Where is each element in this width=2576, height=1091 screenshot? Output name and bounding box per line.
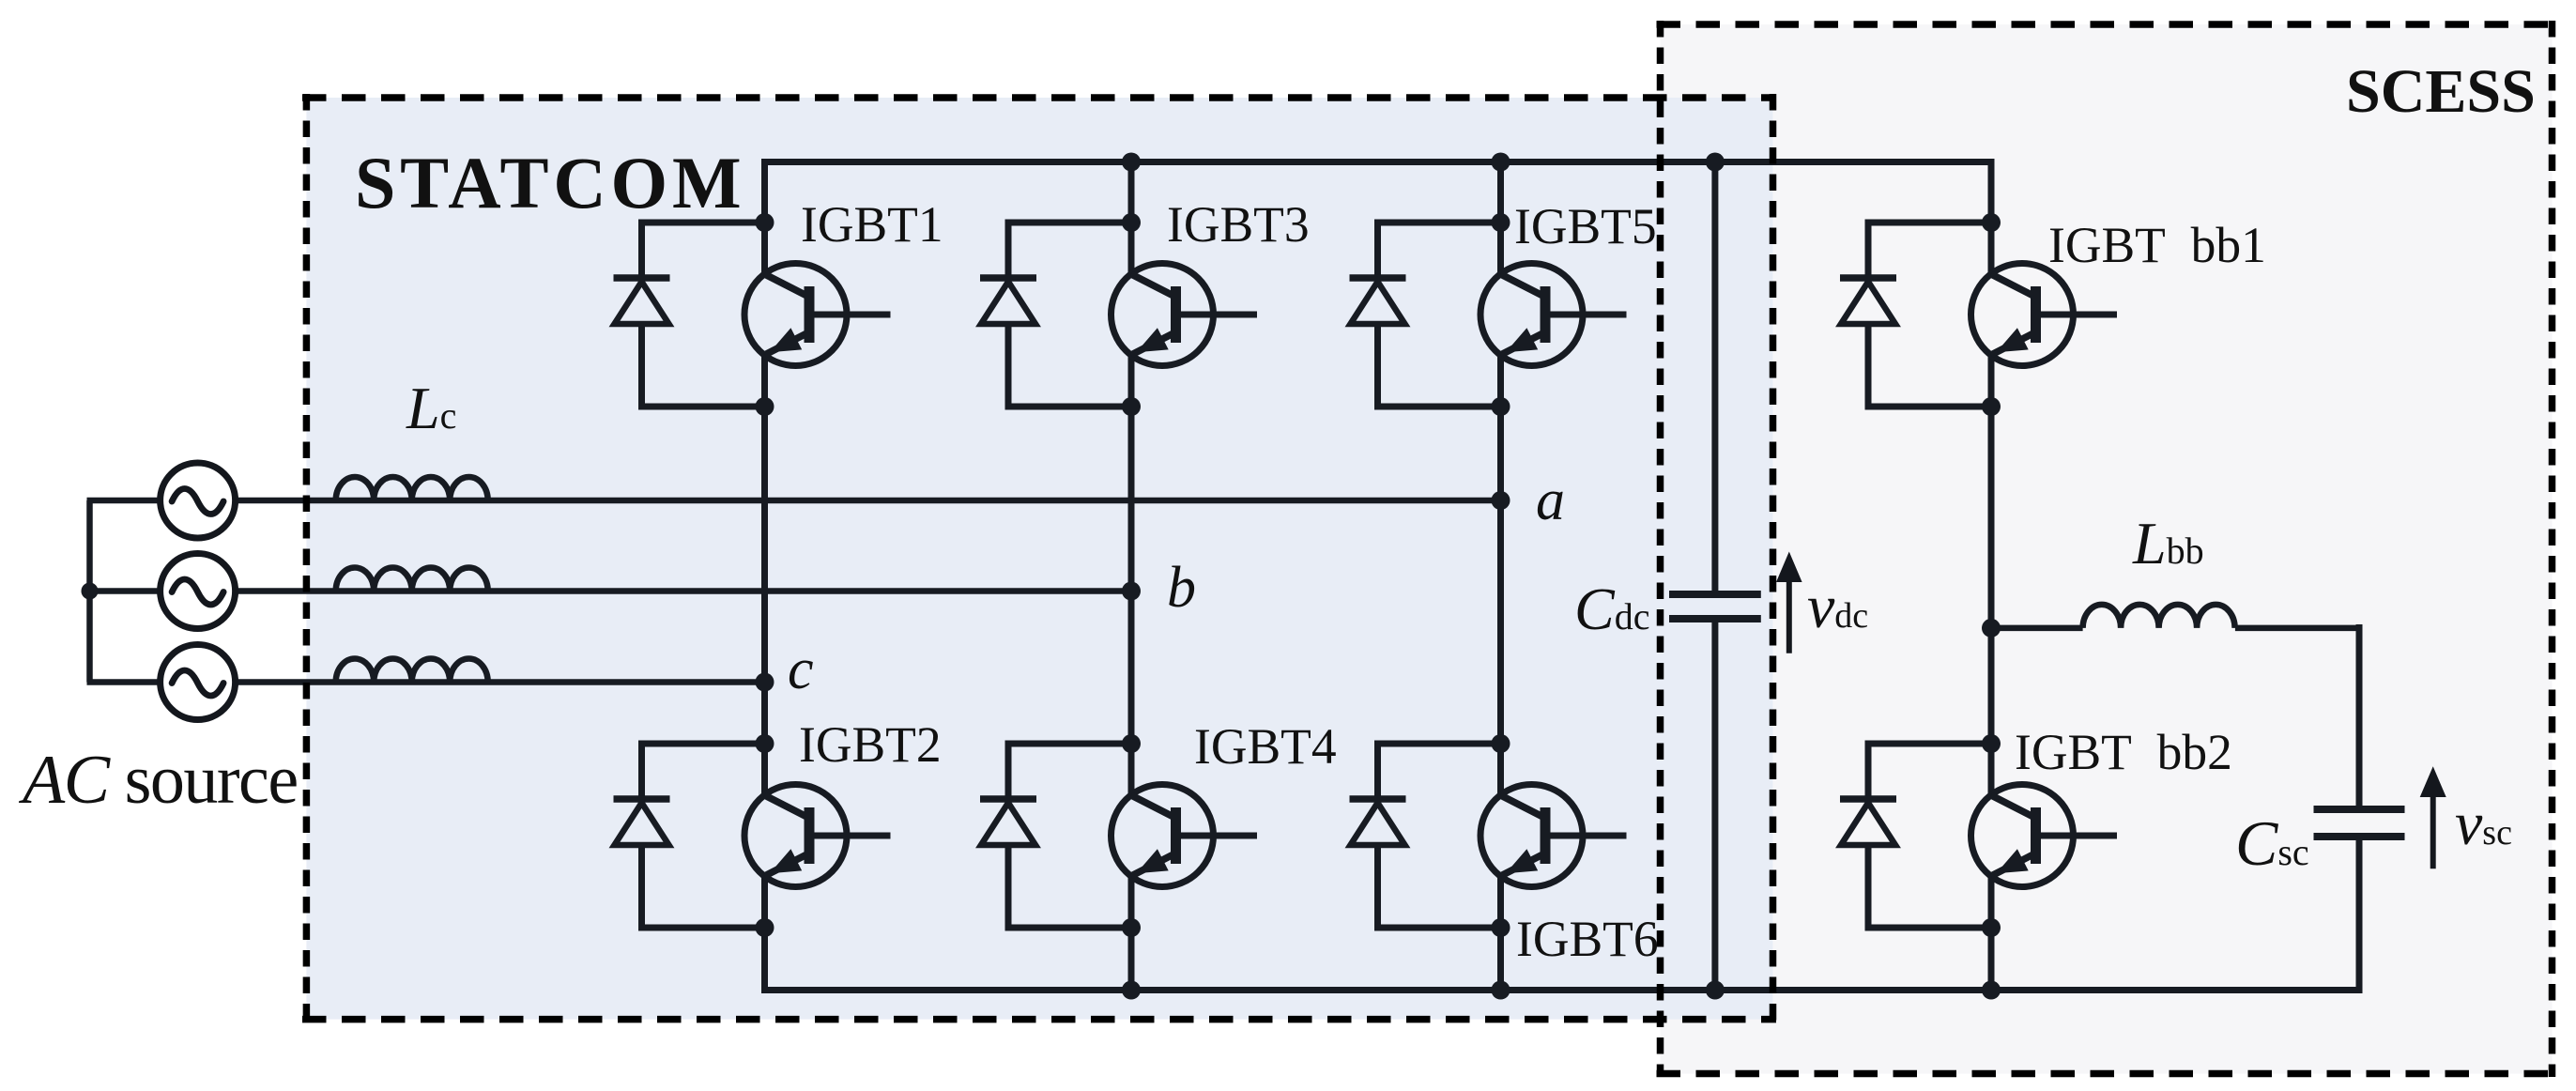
AC source Va [161,463,236,538]
diode of IGBT5 [1350,223,1501,407]
transistor IGBT5 [1480,213,1627,416]
junction: top bus / leg b [1122,153,1141,172]
junction: bottom bus / leg b [1122,981,1141,1000]
junction: bottom bus / Cdc [1706,981,1725,1000]
wire: SCESS chopper leg (bb1/bb2) [1988,162,1995,991]
SCESS dashed border [1657,21,2556,1077]
wire: AC neutral bus (left vertical) [86,500,93,683]
wire: bus to source Vc [87,679,161,685]
svg-text:IGBT1: IGBT1 [801,196,943,253]
diode of IGBT4 [980,744,1131,928]
diode of IGBT1 [614,223,765,407]
transistor IGBT3 [1112,213,1258,416]
transistor IGBT2 [744,734,891,937]
node a [1492,491,1510,510]
wire: phase c from source through Lc to node c [236,679,765,685]
diode of IGBT bb1 [1840,223,1991,407]
STATCOM dashed border [302,94,1776,1022]
inductor Lc phase c [336,659,488,683]
inductor Lc phase b [336,568,488,592]
svg-text:IGBT4: IGBT4 [1194,718,1337,775]
wire: phase b from source through Lc to node b [236,588,1131,594]
wire: Cdc branch upper [1711,162,1718,592]
wire: Csc branch lower [2356,839,2363,991]
transistor IGBT4 [1112,734,1258,937]
inductor Lc phase a [336,477,488,500]
wire: DC negative bottom bus [765,986,2360,991]
capacitor Cdc bottom plate [1669,615,1761,622]
node b [1122,582,1141,601]
svg-text:IGBT bb1: IGBT bb1 [2048,217,2266,273]
capacitor Cdc top plate [1669,591,1761,598]
diode of IGBT bb2 [1840,744,1991,928]
diode of IGBT3 [980,223,1131,407]
STATCOM enclosure box fill [306,98,1772,1020]
junction: top bus / leg c [1492,153,1510,172]
wire: Cdc branch lower [1711,621,1718,991]
svg-text:a: a [1536,469,1565,532]
svg-text:IGBT2: IGBT2 [799,716,942,773]
svg-text:STATCOM: STATCOM [355,142,745,223]
svg-text:IGBT3: IGBT3 [1167,196,1310,253]
diode of IGBT6 [1350,744,1501,928]
SCESS enclosure box fill [1661,24,2553,1074]
wire: bridge leg a (IGBT1/IGBT2) [761,162,768,991]
transistor IGBT6 [1480,734,1627,937]
wire: bridge leg c (IGBT5/IGBT6) [1497,162,1504,991]
wire: phase a from source through Lc to node a [236,498,1501,504]
junction: SCESS leg / Lbb [1982,619,2001,638]
transistor IGBT1 [744,213,891,416]
wire: bus to source Vb [87,588,161,594]
node c [756,673,774,692]
svg-text:AC source: AC source [18,742,298,819]
arrow vsc [2430,796,2436,868]
svg-text:IGBT6: IGBT6 [1516,911,1659,967]
wire: bus to source Va [87,498,161,504]
svg-text:SCESS: SCESS [2346,57,2536,126]
wire: Lbb right lead [2235,625,2359,632]
transistor IGBT bb2 [1971,734,2118,937]
arrow vdc [1786,580,1792,653]
svg-text:IGBT bb2: IGBT bb2 [2015,724,2232,780]
wire: bridge leg b (IGBT3/IGBT4) [1128,162,1135,991]
wire: Csc branch upper [2356,624,2363,807]
svg-text:IGBT5: IGBT5 [1514,198,1657,254]
AC source Vc [161,645,236,720]
junction: AC neutral bus to Vb [82,583,99,600]
inductor Lbb [2083,605,2235,628]
diode of IGBT2 [614,744,765,928]
junction: top bus / Cdc [1706,153,1725,172]
AC source Vb [161,554,236,629]
wire: DC positive top bus [765,162,1992,166]
capacitor Csc top plate [2314,806,2405,813]
transistor IGBT bb1 [1971,213,2118,416]
junction: bottom bus / SCESS leg [1982,981,2001,1000]
capacitor Csc bottom plate [2314,833,2405,840]
svg-text:c: c [788,638,814,701]
svg-text:b: b [1167,556,1196,620]
wire: Lbb left lead [1991,625,2083,632]
junction: bottom bus / leg c [1492,981,1510,1000]
